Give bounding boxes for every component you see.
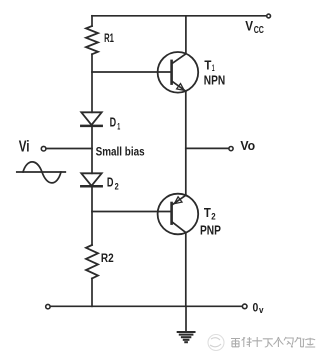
transistor T2 emitter xyxy=(172,195,186,205)
wire R1 to D1 xyxy=(91,54,93,112)
source sine symbol xyxy=(17,171,66,173)
label T1 xyxy=(204,57,215,74)
wire D2 to R2 xyxy=(91,186,93,245)
transistor T2 collector xyxy=(172,222,186,307)
node T1 base junction / wire base T1 xyxy=(92,71,172,73)
svg-text:T: T xyxy=(204,57,211,72)
wire Vo output xyxy=(186,147,228,149)
wire D1 to D2 xyxy=(91,126,93,174)
resistor R1 xyxy=(86,26,98,54)
transistor Q T2 circle xyxy=(158,194,199,235)
label 0v xyxy=(253,300,264,315)
svg-text:Vi: Vi xyxy=(19,139,30,156)
transistor T1 collector xyxy=(172,16,186,64)
wire top rail Vcc xyxy=(92,15,266,17)
label D1 xyxy=(110,115,121,131)
svg-text:2: 2 xyxy=(115,182,119,192)
watermark text strokes xyxy=(231,337,315,347)
wire T2 collector to ground xyxy=(185,306,187,331)
svg-text:R1: R1 xyxy=(104,31,114,45)
node Vcc terminal xyxy=(267,14,271,18)
ground xyxy=(178,332,195,342)
svg-text:2: 2 xyxy=(211,211,215,222)
svg-text:CC: CC xyxy=(254,25,265,36)
svg-text:D: D xyxy=(107,176,114,190)
transistor T1 emitter arrow xyxy=(177,84,187,93)
diode D1 xyxy=(81,112,101,126)
label T2 xyxy=(204,205,216,223)
wire Vi input xyxy=(47,148,92,150)
node Vo terminal xyxy=(229,147,233,151)
transistor Q T1 circle xyxy=(158,52,199,93)
transistor T1 emitter xyxy=(172,81,186,91)
svg-text:V: V xyxy=(245,19,253,34)
label Vcc xyxy=(245,19,264,37)
svg-text:0: 0 xyxy=(253,300,259,314)
svg-text:Vo: Vo xyxy=(240,138,255,153)
wire base T2 xyxy=(92,211,172,213)
svg-text:D: D xyxy=(110,115,117,129)
transistor T1 base bar xyxy=(170,61,173,84)
transistor T2 base bar xyxy=(170,203,173,224)
wire T1 emitter to T2 emitter xyxy=(185,91,187,195)
svg-text:R2: R2 xyxy=(101,251,114,265)
wire bottom rail 0v xyxy=(51,305,242,307)
node bottom-left terminal xyxy=(46,304,50,308)
diode D2 xyxy=(81,173,101,186)
svg-text:T: T xyxy=(204,205,211,220)
svg-text:v: v xyxy=(259,305,264,315)
svg-text:Small bias: Small bias xyxy=(96,144,145,158)
watermark logo icon xyxy=(208,335,224,351)
label D2 xyxy=(107,176,119,192)
svg-text:1: 1 xyxy=(117,122,120,132)
svg-text:NPN: NPN xyxy=(204,72,225,87)
node Vi terminal xyxy=(41,146,46,151)
wire R2 to bottom rail xyxy=(91,278,93,306)
svg-text:PNP: PNP xyxy=(200,223,221,238)
wire left rail above R1 xyxy=(91,16,93,26)
transistor T2 emitter arrow xyxy=(172,197,182,206)
resistor R2 xyxy=(86,245,98,278)
node 0v terminal xyxy=(242,304,247,309)
